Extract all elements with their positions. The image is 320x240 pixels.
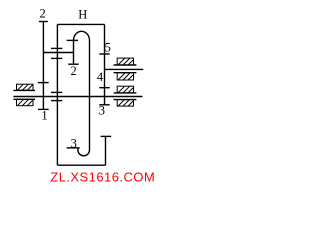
planet mesh tick upper (51, 47, 62, 49)
frame box left lower (17, 99, 34, 105)
coupling tick on left shaft (38, 82, 49, 84)
gear 5 tick (99, 53, 109, 55)
frame line (long, through shafts) (13, 96, 142, 98)
frame box right A (117, 58, 133, 65)
right box A baseline (114, 64, 137, 66)
carrier H top line (57, 23, 104, 25)
bottom stirrup: right side up (105, 136, 107, 165)
svg-text:2: 2 (39, 6, 45, 20)
frame box right D (117, 100, 133, 107)
left frame lower baseline (13, 98, 35, 100)
right box D baseline (114, 99, 137, 101)
planet gear tick upper (near frame) (51, 91, 62, 93)
svg-text:ZL.XS1616.COM: ZL.XS1616.COM (50, 169, 154, 184)
frame box right C (117, 86, 133, 93)
carrier H left side / planet shaft vertical (56, 24, 58, 165)
left frame upper baseline (13, 89, 35, 91)
planet gear tick lower (near frame) (51, 100, 62, 102)
svg-text:5: 5 (105, 41, 111, 55)
svg-text:1: 1 (41, 109, 47, 123)
gear 2' shaft segment (73, 40, 75, 64)
gear 3 bottom tick (67, 147, 80, 149)
svg-text:3: 3 (71, 136, 77, 150)
svg-text:H: H (78, 7, 87, 21)
gear 2' lower tick (68, 63, 78, 65)
ring gear 3 right body with bottom u-turn (78, 40, 90, 155)
frame box right B (117, 73, 133, 80)
right shaft (carrier right / gears 3-4-5) (104, 24, 106, 104)
svg-text:3: 3 (99, 104, 105, 118)
hatched frame boxes (17, 58, 134, 106)
gear 3 mesh tick on right shaft (99, 104, 109, 106)
gear 4 tick (99, 87, 109, 89)
svg-text:4: 4 (97, 70, 104, 84)
ring gear dome arc (74, 31, 90, 40)
frame box left upper (17, 84, 34, 90)
svg-text:2: 2 (70, 64, 76, 78)
gear 2' upper tick (67, 39, 78, 41)
carrier arm line (43, 52, 73, 54)
planet mesh tick lower (51, 57, 62, 59)
shaft of gears 1-2 (left vertical shaft) (42, 22, 44, 110)
right box C baseline (114, 92, 137, 94)
right frame line 1 (105, 68, 144, 70)
gear 2 tick (top of left shaft) (39, 21, 48, 23)
bottom stirrup: top tick (101, 135, 112, 137)
right box B baseline (114, 72, 137, 74)
bottom stirrup: bottom line (57, 164, 105, 166)
gear 1 tick (bottom of left shaft) (38, 108, 49, 110)
